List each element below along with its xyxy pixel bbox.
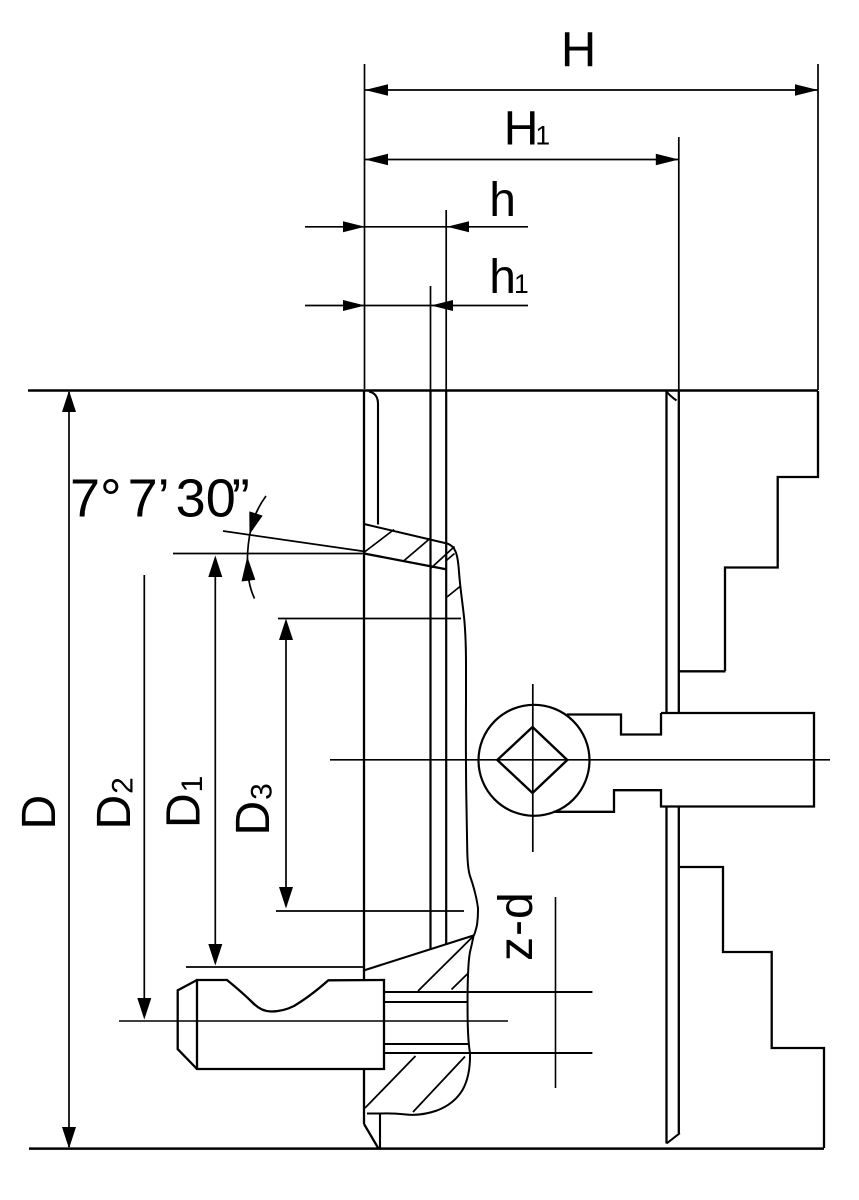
svg-text:H: H bbox=[561, 23, 596, 77]
jaw guide line upper left x=667.5 bbox=[665, 391, 667, 713]
angle slant line bbox=[223, 531, 365, 552]
rim inner edge x=380 bbox=[379, 1114, 381, 1149]
dimension line D bbox=[62, 391, 76, 1149]
angle arrow lower bbox=[242, 557, 256, 582]
svg-text:h: h bbox=[489, 174, 516, 227]
jaw guide line lower right x=679.5 bbox=[678, 807, 680, 1133]
svg-text:H1: H1 bbox=[504, 102, 550, 155]
svg-text:D2: D2 bbox=[88, 777, 141, 829]
flange line x=446 body bbox=[445, 390, 447, 945]
countersink slant bbox=[364, 936, 474, 971]
dimension line h1 bbox=[305, 300, 528, 311]
stud thread line upper bbox=[384, 1001, 468, 1003]
extension line x=430.5 (h1) bbox=[430, 286, 432, 390]
pinion horizontal centerline bbox=[330, 759, 830, 761]
upper jaw stepped outline bbox=[725, 391, 818, 671]
extension line y=553.5 (D1 top) bbox=[173, 553, 364, 555]
flange line x=430.5 body bbox=[429, 390, 431, 950]
stud shank bottom bbox=[384, 1052, 592, 1054]
hatching above stud bbox=[418, 936, 474, 991]
angle arrow upper bbox=[249, 511, 262, 534]
dimension line D3 bbox=[279, 619, 293, 909]
hatching below stud bbox=[365, 1056, 465, 1112]
jaw guide bottom bevel bbox=[667, 1133, 680, 1143]
stud thread line lower bbox=[384, 1043, 469, 1045]
extension line right x=818 bbox=[817, 64, 819, 390]
dimension line D1 bbox=[208, 556, 222, 966]
bottom body line y=1148.6 bbox=[29, 1147, 824, 1150]
pinion vertical centerline bbox=[532, 684, 534, 852]
face inner line x=378 bbox=[369, 392, 378, 525]
cone band hatching bbox=[365, 530, 455, 570]
pinion shaft top bbox=[567, 713, 661, 735]
svg-text:h1: h1 bbox=[489, 251, 528, 304]
extension line y=618.5 (D3 top) bbox=[278, 618, 461, 620]
svg-text:D3: D3 bbox=[227, 783, 280, 835]
chuck face line x=364 bbox=[363, 390, 365, 1124]
top body line y=390.5 bbox=[28, 389, 818, 392]
pinion square socket (diamond) bbox=[497, 727, 567, 793]
pinion collar bbox=[554, 713, 815, 812]
bottom chamfer of face bbox=[364, 1124, 379, 1149]
svg-text:D1: D1 bbox=[158, 776, 211, 828]
dimension line H1 bbox=[365, 154, 679, 165]
pinion circle bbox=[479, 705, 590, 816]
extension line left x=364.5 bbox=[364, 64, 366, 389]
extension line y=967 (D1 bottom) bbox=[186, 966, 365, 968]
z-d dimension line bbox=[555, 897, 557, 1088]
dimension line h bbox=[305, 221, 528, 232]
bolt centerline y=1021 (D2 bottom) bbox=[119, 1020, 508, 1022]
stud head bevel bbox=[178, 980, 197, 1069]
extension line y=911 (D3 bottom) bbox=[276, 910, 464, 912]
svg-text:7°7’30”: 7°7’30” bbox=[70, 469, 250, 529]
extension line x=446 (h) bbox=[445, 210, 447, 390]
flange hatching below band bbox=[447, 587, 460, 598]
jaw guide line lower left x=667.5 bbox=[665, 807, 667, 1144]
svg-text:z-d: z-d bbox=[490, 891, 543, 961]
stud head outline bbox=[197, 980, 384, 1069]
dimension line H bbox=[365, 84, 818, 95]
dimension line D2 bbox=[137, 575, 151, 1020]
stud shank top bbox=[384, 991, 592, 993]
cone band top edge and break line bbox=[364, 524, 478, 1115]
jaw guide chamfer bbox=[667, 392, 677, 401]
jaw step line y=671 bbox=[679, 670, 726, 672]
cone band bottom edge bbox=[364, 554, 446, 570]
jaw guide line upper right x=679.5 bbox=[678, 390, 680, 713]
lower jaw stepped outline bbox=[680, 867, 824, 1148]
extension line H1 right x=679 bbox=[678, 137, 680, 390]
angle leader curve bbox=[247, 496, 266, 599]
svg-text:D: D bbox=[13, 795, 66, 830]
